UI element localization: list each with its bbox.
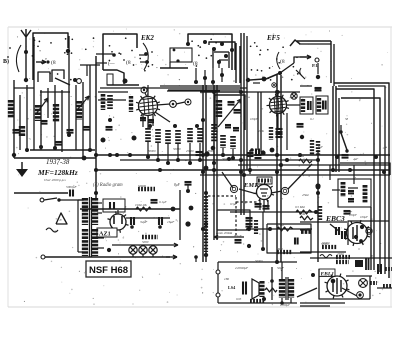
resistor R11 xyxy=(269,127,273,140)
label small freq note xyxy=(44,178,66,182)
wire bus H1 xyxy=(96,154,390,156)
wire bank v4 xyxy=(33,37,35,150)
shield box EBC3 xyxy=(348,221,372,245)
wire bank v12 xyxy=(89,65,91,150)
capacitor C2 xyxy=(13,130,20,133)
inductor L6 xyxy=(19,126,25,137)
label 2000pF a xyxy=(235,266,249,270)
capacitor C31 xyxy=(336,227,339,235)
label R18 value xyxy=(276,247,283,251)
capacitor C22 8uF xyxy=(174,182,192,193)
label (8 switch xyxy=(193,60,198,67)
wire P.U arc xyxy=(296,68,305,79)
wire V2 side drop xyxy=(286,113,288,150)
svg-text:1937-38: 1937-38 xyxy=(46,158,70,166)
resistor R27 xyxy=(336,252,350,257)
wire rail r2b xyxy=(338,98,340,172)
capacitor C3 xyxy=(41,121,48,124)
svg-text:50000: 50000 xyxy=(321,242,329,246)
capacitor C27 xyxy=(236,282,246,302)
wire EK2 bottom path xyxy=(103,70,139,85)
tube EM1 V3 xyxy=(254,182,274,202)
svg-text:50000: 50000 xyxy=(255,259,263,263)
wire mains lead xyxy=(14,192,68,194)
label (8 EK2 xyxy=(126,59,131,66)
resistor R13 xyxy=(316,141,320,155)
capacitor C47 lytic xyxy=(378,264,392,274)
svg-text:186: 186 xyxy=(224,277,229,281)
capacitor C9 xyxy=(225,125,239,130)
wire bank v1 xyxy=(13,80,15,158)
trimmer arrow T3 xyxy=(218,99,241,127)
trimmer arrow T2 xyxy=(77,96,89,110)
wire grid lead EBC3 xyxy=(300,222,347,232)
wire bank v8 xyxy=(61,90,63,152)
capacitor C24 32uF xyxy=(130,217,148,229)
svg-text:50000: 50000 xyxy=(138,184,146,188)
grid cap G2 xyxy=(170,101,177,108)
wire rail c1 xyxy=(202,85,204,262)
wire rail c7 xyxy=(246,36,248,170)
wire EF5 arc xyxy=(277,52,280,69)
shield box IF3a xyxy=(300,97,313,114)
target ring D2 xyxy=(357,292,364,299)
capacitor C1 trimmer xyxy=(290,40,300,46)
svg-text:190Ω 40k: 190Ω 40k xyxy=(135,203,147,207)
resistor R10 xyxy=(230,136,236,149)
page right edge xyxy=(390,27,392,307)
capacitor C13 xyxy=(308,101,311,110)
node resistor row feet xyxy=(146,155,216,165)
label EBC3 xyxy=(325,214,345,223)
wire bank right double xyxy=(236,43,240,83)
wire EM1 legs xyxy=(260,200,268,212)
wire IF2 top xyxy=(200,90,247,98)
resistor R12 xyxy=(310,140,314,155)
wire bus drop to LS xyxy=(194,255,198,262)
svg-text:25000: 25000 xyxy=(186,149,194,153)
wire grid bus top xyxy=(100,88,247,91)
svg-text:NSF H68: NSF H68 xyxy=(89,265,128,276)
wire bus H3 xyxy=(238,164,390,166)
svg-text:50μF: 50μF xyxy=(277,266,285,270)
capacitor C46 xyxy=(196,151,210,156)
capacitor C43 xyxy=(297,124,305,139)
resistor R26 xyxy=(321,242,337,247)
wire rail far1 xyxy=(370,207,372,270)
inductor L12 xyxy=(363,185,368,203)
svg-text:0.5 MΩ: 0.5 MΩ xyxy=(295,205,305,209)
label 4uF xyxy=(353,157,358,161)
shield box EBL1 xyxy=(319,269,372,299)
label R16 value xyxy=(295,205,305,209)
capacitor C28 xyxy=(348,191,354,193)
capacitor C11 xyxy=(234,110,241,113)
wire corner A xyxy=(334,83,389,278)
wire bus H5 xyxy=(200,174,390,176)
transformer TR1 secondary xyxy=(92,198,98,256)
wire af links xyxy=(332,188,358,190)
node aerial coil tap xyxy=(73,78,81,83)
shield dots EF5 xyxy=(250,42,299,81)
shield box switch inner xyxy=(209,42,235,70)
capacitor C8 xyxy=(106,127,113,130)
svg-text:0.5M: 0.5M xyxy=(299,212,306,216)
wire V1 legs xyxy=(143,115,153,128)
page bottom edge xyxy=(8,306,392,308)
wire LS bottom xyxy=(218,302,297,304)
wire bank v3 xyxy=(26,85,28,152)
svg-text:5000: 5000 xyxy=(142,240,149,244)
lamp P2 xyxy=(139,246,147,254)
label MF 128kHz xyxy=(37,168,78,177)
wire rail c10 xyxy=(257,92,259,150)
svg-text:(8: (8 xyxy=(51,59,56,66)
capacitor C17 xyxy=(255,204,262,207)
page top edge xyxy=(8,26,392,28)
wire TR1 stubs xyxy=(78,200,104,252)
shield box AF transformer xyxy=(338,179,371,207)
wire rail c11 xyxy=(260,92,262,152)
label NSF H68 xyxy=(86,261,131,277)
wire bank v2 xyxy=(19,95,21,150)
inductor L14 xyxy=(317,98,321,112)
resistor R6 xyxy=(187,128,193,143)
node R1 foot xyxy=(108,118,112,122)
transformer TR1 core xyxy=(90,197,92,257)
capacitor C29 xyxy=(348,199,354,201)
wire rail c9 xyxy=(280,75,282,262)
shield box IF2 xyxy=(215,95,245,130)
top cap ring X1 xyxy=(359,279,368,288)
node switch junctions xyxy=(203,40,234,64)
svg-text:2.0000μF: 2.0000μF xyxy=(235,266,249,270)
svg-text:comb 200kΩ: comb 200kΩ xyxy=(216,231,233,235)
node dropper taps xyxy=(204,157,231,257)
wire V1 links xyxy=(148,85,185,122)
tube AZ1 V4 xyxy=(107,210,128,233)
wire P.U feed diagonal xyxy=(262,63,294,81)
tube EK2 V1 xyxy=(136,94,160,119)
wire EK2 arc xyxy=(143,43,148,70)
svg-text:5000pF: 5000pF xyxy=(66,185,77,189)
label EF5 xyxy=(266,34,280,42)
node antenna junction xyxy=(24,50,28,82)
wire V2 links xyxy=(276,90,300,128)
page left edge xyxy=(7,27,9,307)
wire mid cross xyxy=(200,91,300,93)
svg-text:32μF: 32μF xyxy=(140,220,148,224)
fuse squiggle xyxy=(46,228,58,232)
shield box agc xyxy=(267,224,311,253)
grid cap G3 xyxy=(185,99,191,105)
resistor R24 xyxy=(299,212,313,220)
capacitor C16 xyxy=(342,155,349,158)
svg-text:EF5: EF5 xyxy=(266,34,280,42)
wire psu mid xyxy=(126,217,170,219)
wire heater arrow xyxy=(107,243,178,252)
label (8 band xyxy=(51,59,56,66)
label 1937-38 xyxy=(46,158,70,166)
svg-text:B): B) xyxy=(3,58,9,65)
wire right rail xyxy=(317,150,319,262)
node V2 feet xyxy=(270,90,280,152)
node af dot xyxy=(315,183,320,188)
lamp P3 xyxy=(149,246,157,254)
capacitor C20 xyxy=(295,238,298,245)
wire mech link dashed xyxy=(208,196,258,236)
labels EBC3 values xyxy=(305,210,368,245)
node EBL1 grid xyxy=(311,273,315,277)
wire P.U bracket xyxy=(294,55,311,63)
svg-text:(8: (8 xyxy=(126,59,131,66)
capacitor C10 xyxy=(228,102,235,105)
resistor R18 xyxy=(277,250,292,254)
switch S1 inner frame xyxy=(170,48,192,63)
tube EBC3 V5 xyxy=(344,220,370,246)
wire af coil lower xyxy=(300,230,311,232)
svg-text:0.05: 0.05 xyxy=(236,297,242,301)
capacitor C18 xyxy=(263,206,270,209)
transformer TR1 primary xyxy=(82,198,88,256)
inductor L5 xyxy=(76,101,82,120)
wire switch risers xyxy=(196,68,222,85)
label 186 xyxy=(224,277,229,281)
svg-text:MF=128kHz: MF=128kHz xyxy=(37,168,78,177)
resistor R14 anode xyxy=(257,177,272,184)
svg-text:40 kΩ: 40 kΩ xyxy=(276,223,284,227)
node bus dots b xyxy=(212,90,386,174)
svg-text:50000: 50000 xyxy=(173,147,181,151)
svg-text:Over 2000 p.p.s: Over 2000 p.p.s xyxy=(44,178,66,182)
resistor R28 xyxy=(336,260,349,264)
resistor R20 xyxy=(204,226,208,252)
target ring D1 xyxy=(366,228,372,234)
resistor R8 xyxy=(211,124,217,142)
capacitor C19 xyxy=(246,218,253,227)
inductor L2 xyxy=(8,100,14,118)
svg-text:(4) Radio gram: (4) Radio gram xyxy=(93,183,123,188)
svg-text:AZ1: AZ1 xyxy=(99,231,111,238)
resistor R4 xyxy=(165,130,171,144)
terminal P.U 1 xyxy=(315,58,319,62)
node EM1 feet xyxy=(247,227,265,251)
wire rail c4 xyxy=(216,85,218,240)
warning triangle xyxy=(56,213,67,224)
wire rail r1 xyxy=(332,86,334,172)
shield box potentiometer xyxy=(217,210,250,230)
svg-text:0.5μF: 0.5μF xyxy=(230,202,237,206)
wire eye rail xyxy=(249,150,251,174)
svg-text:0.1μF: 0.1μF xyxy=(159,200,167,204)
speaker SP1 xyxy=(252,279,262,299)
coil L1 aerial xyxy=(38,70,64,82)
svg-text:8μF: 8μF xyxy=(318,145,323,149)
svg-text:250Ω: 250Ω xyxy=(337,252,345,256)
resistor R17 xyxy=(277,227,293,231)
shield box EK2 stage xyxy=(103,34,137,70)
resistor R9 xyxy=(220,135,226,148)
wire IF2 drops xyxy=(223,148,233,158)
resistor R21 xyxy=(138,184,155,189)
svg-text:1MΩ: 1MΩ xyxy=(276,247,283,251)
wire EK2 box left leads xyxy=(96,53,116,63)
wire bank v10 xyxy=(75,85,77,150)
resistor R5 xyxy=(175,130,181,144)
wire AGC bus xyxy=(246,227,312,231)
wire switch bottom pair xyxy=(160,86,240,90)
inductor L10 xyxy=(341,182,346,197)
wire bank v5 xyxy=(40,90,42,150)
tube V1 top cap xyxy=(141,87,147,97)
resistor R2 xyxy=(145,128,151,142)
capacitor C42 xyxy=(315,88,322,90)
resistor R15 xyxy=(254,220,258,234)
wire corner C xyxy=(341,98,380,272)
wire aerial diagonal xyxy=(55,78,70,85)
wire rail c6 xyxy=(243,33,245,215)
mains filter box xyxy=(103,199,125,212)
wire P.U right drop xyxy=(331,41,334,86)
wire bank v13 xyxy=(95,56,97,200)
wire corner B xyxy=(336,89,374,270)
capacitor C6 xyxy=(83,127,90,130)
shield dots aerial box xyxy=(7,37,94,80)
node right rail tap xyxy=(316,185,321,195)
wire P.U foot xyxy=(300,85,312,87)
label EM1 xyxy=(243,182,257,189)
capacitor C21 xyxy=(234,234,242,243)
wire af lower buses xyxy=(300,221,392,258)
wire EBL1 diagonal xyxy=(342,288,357,296)
labels misc values xyxy=(148,117,349,263)
wire rail r2 xyxy=(335,86,337,172)
label 2000pF b xyxy=(280,303,290,307)
svg-text:EK2: EK2 xyxy=(140,34,154,42)
resistor R29 small xyxy=(370,281,377,285)
wire wave switch arrow xyxy=(36,60,50,64)
wire psu bus xyxy=(80,206,193,212)
svg-text:1000: 1000 xyxy=(160,153,167,157)
wire EM1 cathode drop xyxy=(262,212,264,247)
terminal LS1 xyxy=(216,262,220,274)
wire volume arrow xyxy=(214,231,244,239)
svg-text:(8: (8 xyxy=(280,58,285,65)
svg-text:58: 58 xyxy=(345,117,349,121)
wire bank tops xyxy=(14,65,100,92)
wire wavy decoupling xyxy=(320,255,332,258)
resistor R16 xyxy=(296,210,312,214)
svg-text:EM1: EM1 xyxy=(243,182,257,189)
resistor R1 xyxy=(107,95,113,109)
wire EK2 right stubs xyxy=(139,52,149,64)
capacitor C7 xyxy=(140,118,154,122)
svg-text:47kΩ: 47kΩ xyxy=(302,193,309,197)
wire EM1 diagonals xyxy=(222,164,312,194)
resistor R7 xyxy=(197,128,203,143)
label B xyxy=(3,58,9,65)
svg-text:30000: 30000 xyxy=(148,149,156,153)
wire band arc xyxy=(16,45,21,72)
label 50uF xyxy=(277,266,285,270)
capacitor C25 16uF xyxy=(158,217,175,229)
label P.U xyxy=(312,63,319,68)
capacitor C26 mains xyxy=(66,185,77,197)
wire bus H4 xyxy=(96,169,390,171)
capacitor C23 xyxy=(151,200,167,204)
lamp P1 xyxy=(129,246,137,254)
wire bank v7 xyxy=(54,85,56,150)
inductor L3 xyxy=(35,105,41,121)
svg-text:LS4: LS4 xyxy=(228,285,236,290)
antenna A1 xyxy=(21,29,31,80)
wire switch steps xyxy=(213,48,229,68)
svg-text:8μF: 8μF xyxy=(174,183,181,187)
inductor L13 xyxy=(301,99,305,112)
tube V2 grid cap xyxy=(291,93,297,99)
capacitor C44 xyxy=(256,149,266,156)
capacitor C5 xyxy=(67,130,74,133)
label EBL1 xyxy=(319,269,335,277)
shield dots EK2 box xyxy=(109,37,154,71)
label LS xyxy=(228,285,236,290)
svg-text:0.1μF: 0.1μF xyxy=(345,210,352,214)
label R17 value xyxy=(276,223,284,227)
wire bus H2 xyxy=(120,159,318,161)
tube EBL1 V6 xyxy=(325,274,350,299)
capacitor C40 xyxy=(315,88,321,90)
label (8 EF5 xyxy=(280,58,285,65)
node speaker joints xyxy=(262,260,284,305)
transformer TR2 out xyxy=(282,262,291,303)
label AZ1 xyxy=(97,228,117,238)
svg-text:100μF: 100μF xyxy=(360,215,368,219)
wire switch bottom left xyxy=(160,62,188,68)
node bus joints xyxy=(94,153,335,172)
label EK2 xyxy=(140,34,154,42)
resistor R25 xyxy=(318,206,322,220)
inductor L4 xyxy=(53,104,59,122)
wire EF5 bottom xyxy=(246,78,264,83)
wire bank v11 xyxy=(82,82,84,156)
label (- EK2 xyxy=(108,62,116,67)
svg-text:0.1μF: 0.1μF xyxy=(234,234,242,238)
svg-text:0.1: 0.1 xyxy=(310,117,314,121)
wire EBL1 bottom xyxy=(300,303,345,306)
node bank joints xyxy=(12,133,92,160)
inductor L9 xyxy=(216,100,222,117)
node P.U ground xyxy=(316,63,320,79)
wire rail c2 xyxy=(205,85,207,262)
wire bank v6 xyxy=(47,88,49,118)
resistor R30 edge xyxy=(377,286,392,288)
wire P.U top pair xyxy=(297,41,331,44)
wire rail c5 xyxy=(240,33,242,215)
svg-text:40000: 40000 xyxy=(207,149,215,153)
wire rail c8 xyxy=(276,75,278,262)
inductor L7 osc coil xyxy=(129,96,133,112)
wire LS top xyxy=(218,261,297,263)
wire psu side xyxy=(135,190,191,240)
terminal LS2 xyxy=(216,274,220,303)
svg-text:100pF: 100pF xyxy=(250,117,258,121)
resistor R19 xyxy=(204,196,208,222)
capacitor C30 xyxy=(344,211,358,217)
inductor L8 xyxy=(101,94,106,110)
target ring M1 xyxy=(230,185,237,192)
wire spk vert xyxy=(270,267,274,300)
svg-text:1MΩ: 1MΩ xyxy=(305,227,312,231)
